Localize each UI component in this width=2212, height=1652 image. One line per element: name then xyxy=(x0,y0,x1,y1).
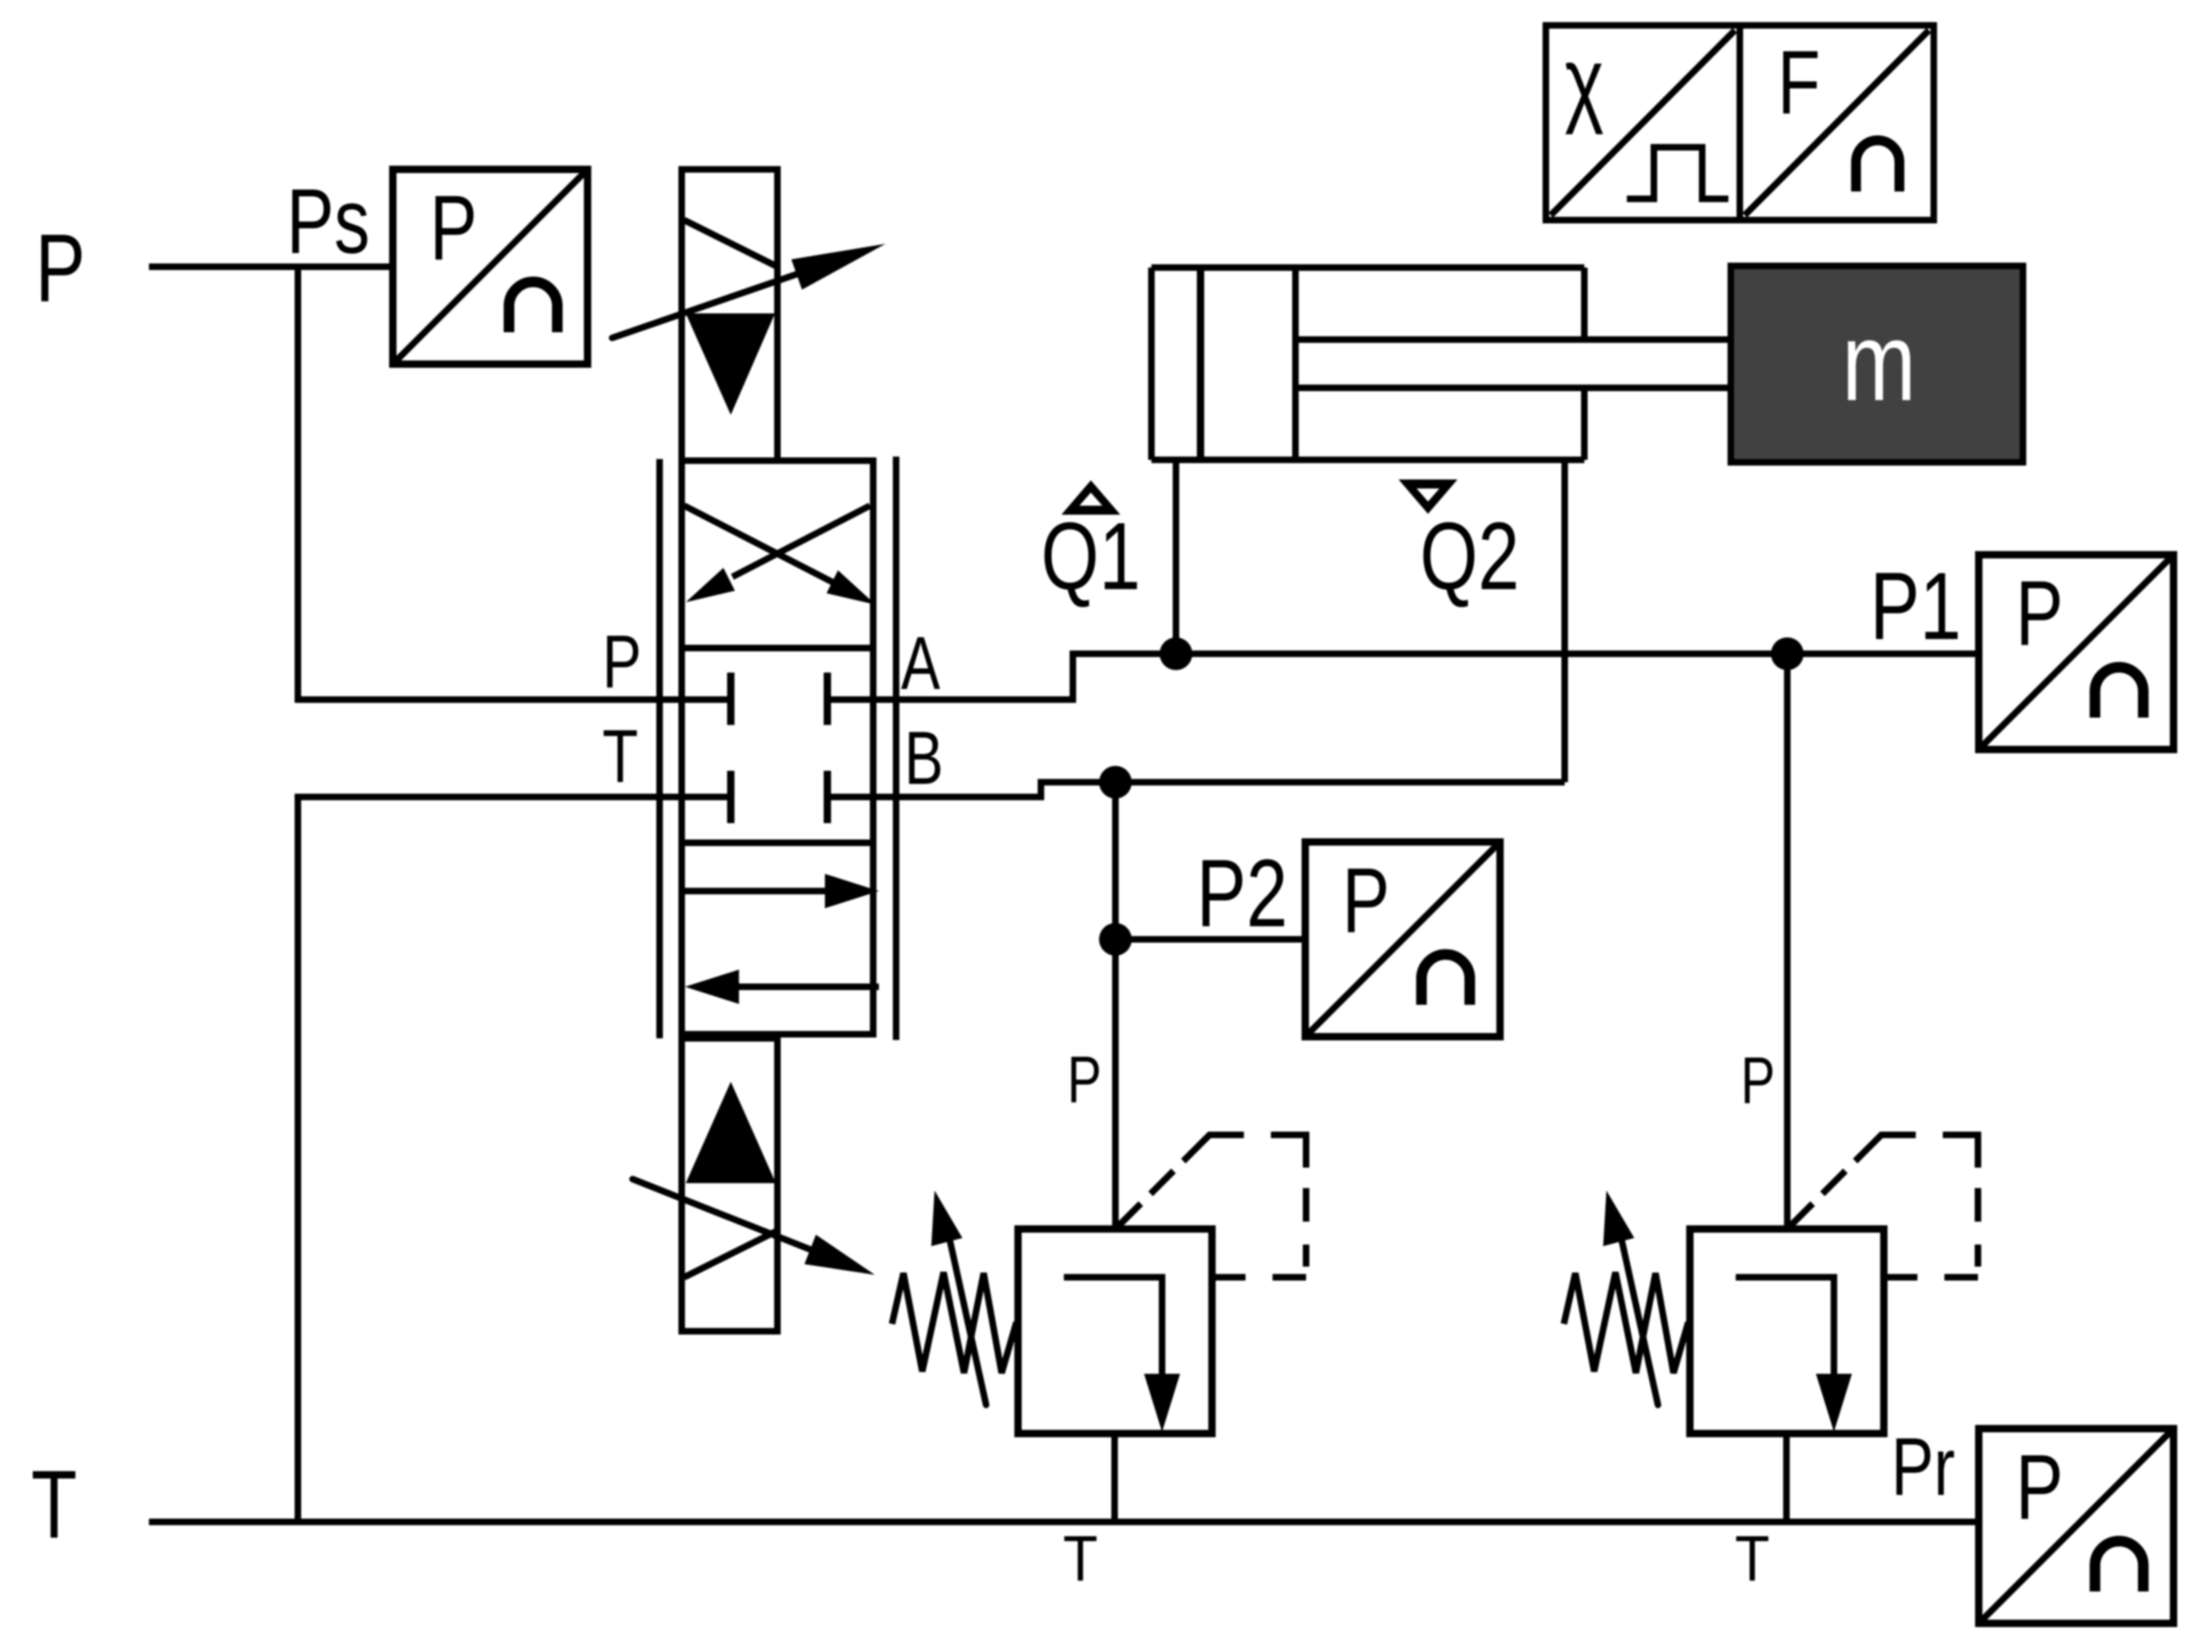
svg-text:B: B xyxy=(904,716,944,800)
junction dot A-line / cylinder xyxy=(1160,637,1192,670)
position sensor X (displacement transducer) xyxy=(1546,25,1740,220)
wire valve T port to tank rail xyxy=(298,797,731,1522)
junction dot A-line / relief RV2 xyxy=(1771,637,1804,670)
valve blocked port bar B xyxy=(824,771,831,823)
relief valve RV1 xyxy=(892,1135,1306,1434)
valve crossed arrow A-to-T xyxy=(732,506,870,577)
wire cylinder cap-end port down xyxy=(1173,460,1179,654)
wire RV2 to tank xyxy=(1783,1434,1790,1522)
force sensor F xyxy=(1740,25,1934,220)
proportional valve V1 body xyxy=(682,461,873,1034)
bottom proportional solenoid xyxy=(682,1038,777,1331)
svg-text:Pr: Pr xyxy=(1891,1422,1955,1514)
wire P1 junction down to relief RV2 xyxy=(1784,654,1791,1229)
sensor P1 xyxy=(1979,555,2174,749)
wire tank bottom rail xyxy=(149,1519,1979,1525)
svg-text:m: m xyxy=(1842,301,1917,425)
mass load m xyxy=(1731,266,2023,462)
svg-text:A: A xyxy=(901,621,940,705)
svg-text:Q2: Q2 xyxy=(1420,503,1520,610)
proportional valve V1 right rail xyxy=(893,457,899,1040)
valve blocked port bar P xyxy=(728,673,735,725)
proportional valve V1 left rail xyxy=(656,459,663,1038)
wire cylinder rod-end port down xyxy=(1561,460,1568,782)
svg-text:Ps: Ps xyxy=(286,171,370,273)
sensor Pr xyxy=(1979,1429,2174,1623)
valve parallel arrow P-to-A xyxy=(684,888,827,894)
wire valve A port to sensor P1 xyxy=(827,654,1979,700)
wire P branch down to valve P port xyxy=(298,263,731,700)
wire B junction down to relief RV1 xyxy=(1112,782,1119,1229)
svg-text:T: T xyxy=(602,714,638,799)
svg-text:χ: χ xyxy=(1565,29,1604,135)
sensor P2 xyxy=(1305,842,1500,1037)
svg-text:T: T xyxy=(1063,1523,1097,1595)
wire valve B port line xyxy=(827,782,1565,797)
svg-text:P: P xyxy=(35,214,85,322)
valve blocked port bar T xyxy=(728,771,735,823)
wire P supply horizontal xyxy=(149,263,393,270)
svg-text:T: T xyxy=(31,1451,77,1559)
junction dot P2 branch xyxy=(1099,923,1132,956)
wire branch to sensor P2 xyxy=(1115,936,1305,943)
hydraulic cylinder C1 xyxy=(1151,268,1584,460)
flow marker Q1 xyxy=(1061,480,1120,515)
relief valve RV2 xyxy=(1564,1135,1978,1434)
svg-text:P: P xyxy=(1741,1044,1775,1118)
svg-text:P2: P2 xyxy=(1196,840,1288,947)
pressure sensor Ps xyxy=(393,169,588,364)
junction dot B-line / relief RV1 xyxy=(1099,766,1132,799)
svg-text:F: F xyxy=(1777,33,1820,133)
valve crossed arrow P-to-B xyxy=(684,506,843,587)
svg-text:P1: P1 xyxy=(1870,553,1962,659)
top proportional solenoid xyxy=(682,169,777,461)
flow marker Q2 xyxy=(1399,479,1457,514)
wire RV1 to tank xyxy=(1111,1434,1118,1522)
valve blocked port bar A xyxy=(824,673,831,725)
svg-text:Q1: Q1 xyxy=(1041,503,1141,610)
svg-text:P: P xyxy=(602,619,642,704)
svg-text:P: P xyxy=(1067,1043,1101,1117)
valve parallel arrow B-to-T xyxy=(739,984,879,990)
svg-text:T: T xyxy=(1735,1523,1769,1595)
